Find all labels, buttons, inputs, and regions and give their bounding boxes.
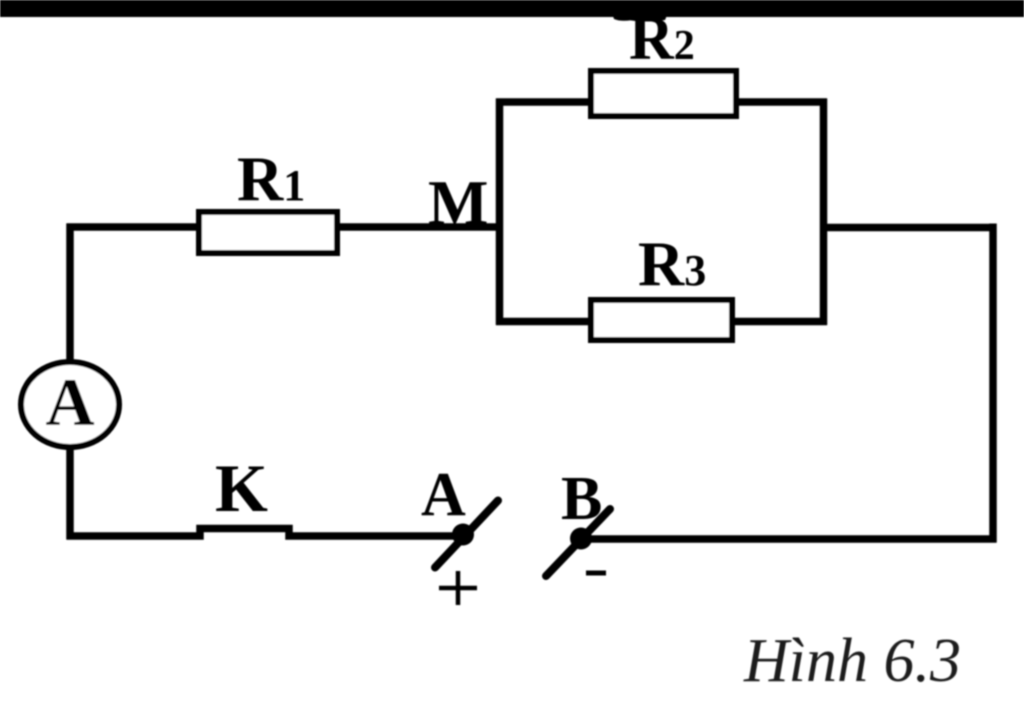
resistor R2 <box>591 71 736 116</box>
wire bottom left with switch jog <box>67 529 456 537</box>
svg-text:A: A <box>421 461 466 529</box>
minus sign <box>586 571 606 576</box>
wire right vertical <box>989 224 997 543</box>
svg-text:Hình 6.3: Hình 6.3 <box>743 627 961 695</box>
resistor R1 <box>199 212 337 253</box>
wire parallel block bottom <box>496 318 827 326</box>
resistor R3 <box>591 300 732 340</box>
wire parallel block top <box>496 98 827 106</box>
ammeter A <box>21 362 119 447</box>
terminal A dot <box>452 524 474 546</box>
wire middle right <box>820 224 996 232</box>
wire bottom right <box>581 535 997 543</box>
wire parallel block right vertical <box>820 99 828 326</box>
wire from R1 to node M <box>67 223 500 231</box>
ink blob under bar (top of R2 touching bar) <box>612 13 668 22</box>
wire parallel block left vertical <box>496 99 504 326</box>
scan border bar <box>0 0 1024 17</box>
svg-text:A: A <box>45 364 94 440</box>
wire left vertical <box>66 224 74 540</box>
svg-text:K: K <box>215 450 268 526</box>
terminal A slash <box>435 501 498 568</box>
terminal B slash <box>546 509 610 576</box>
terminal B dot <box>570 528 592 550</box>
plus sign <box>439 586 477 591</box>
svg-text:B: B <box>561 465 602 533</box>
svg-text:M: M <box>428 167 488 238</box>
